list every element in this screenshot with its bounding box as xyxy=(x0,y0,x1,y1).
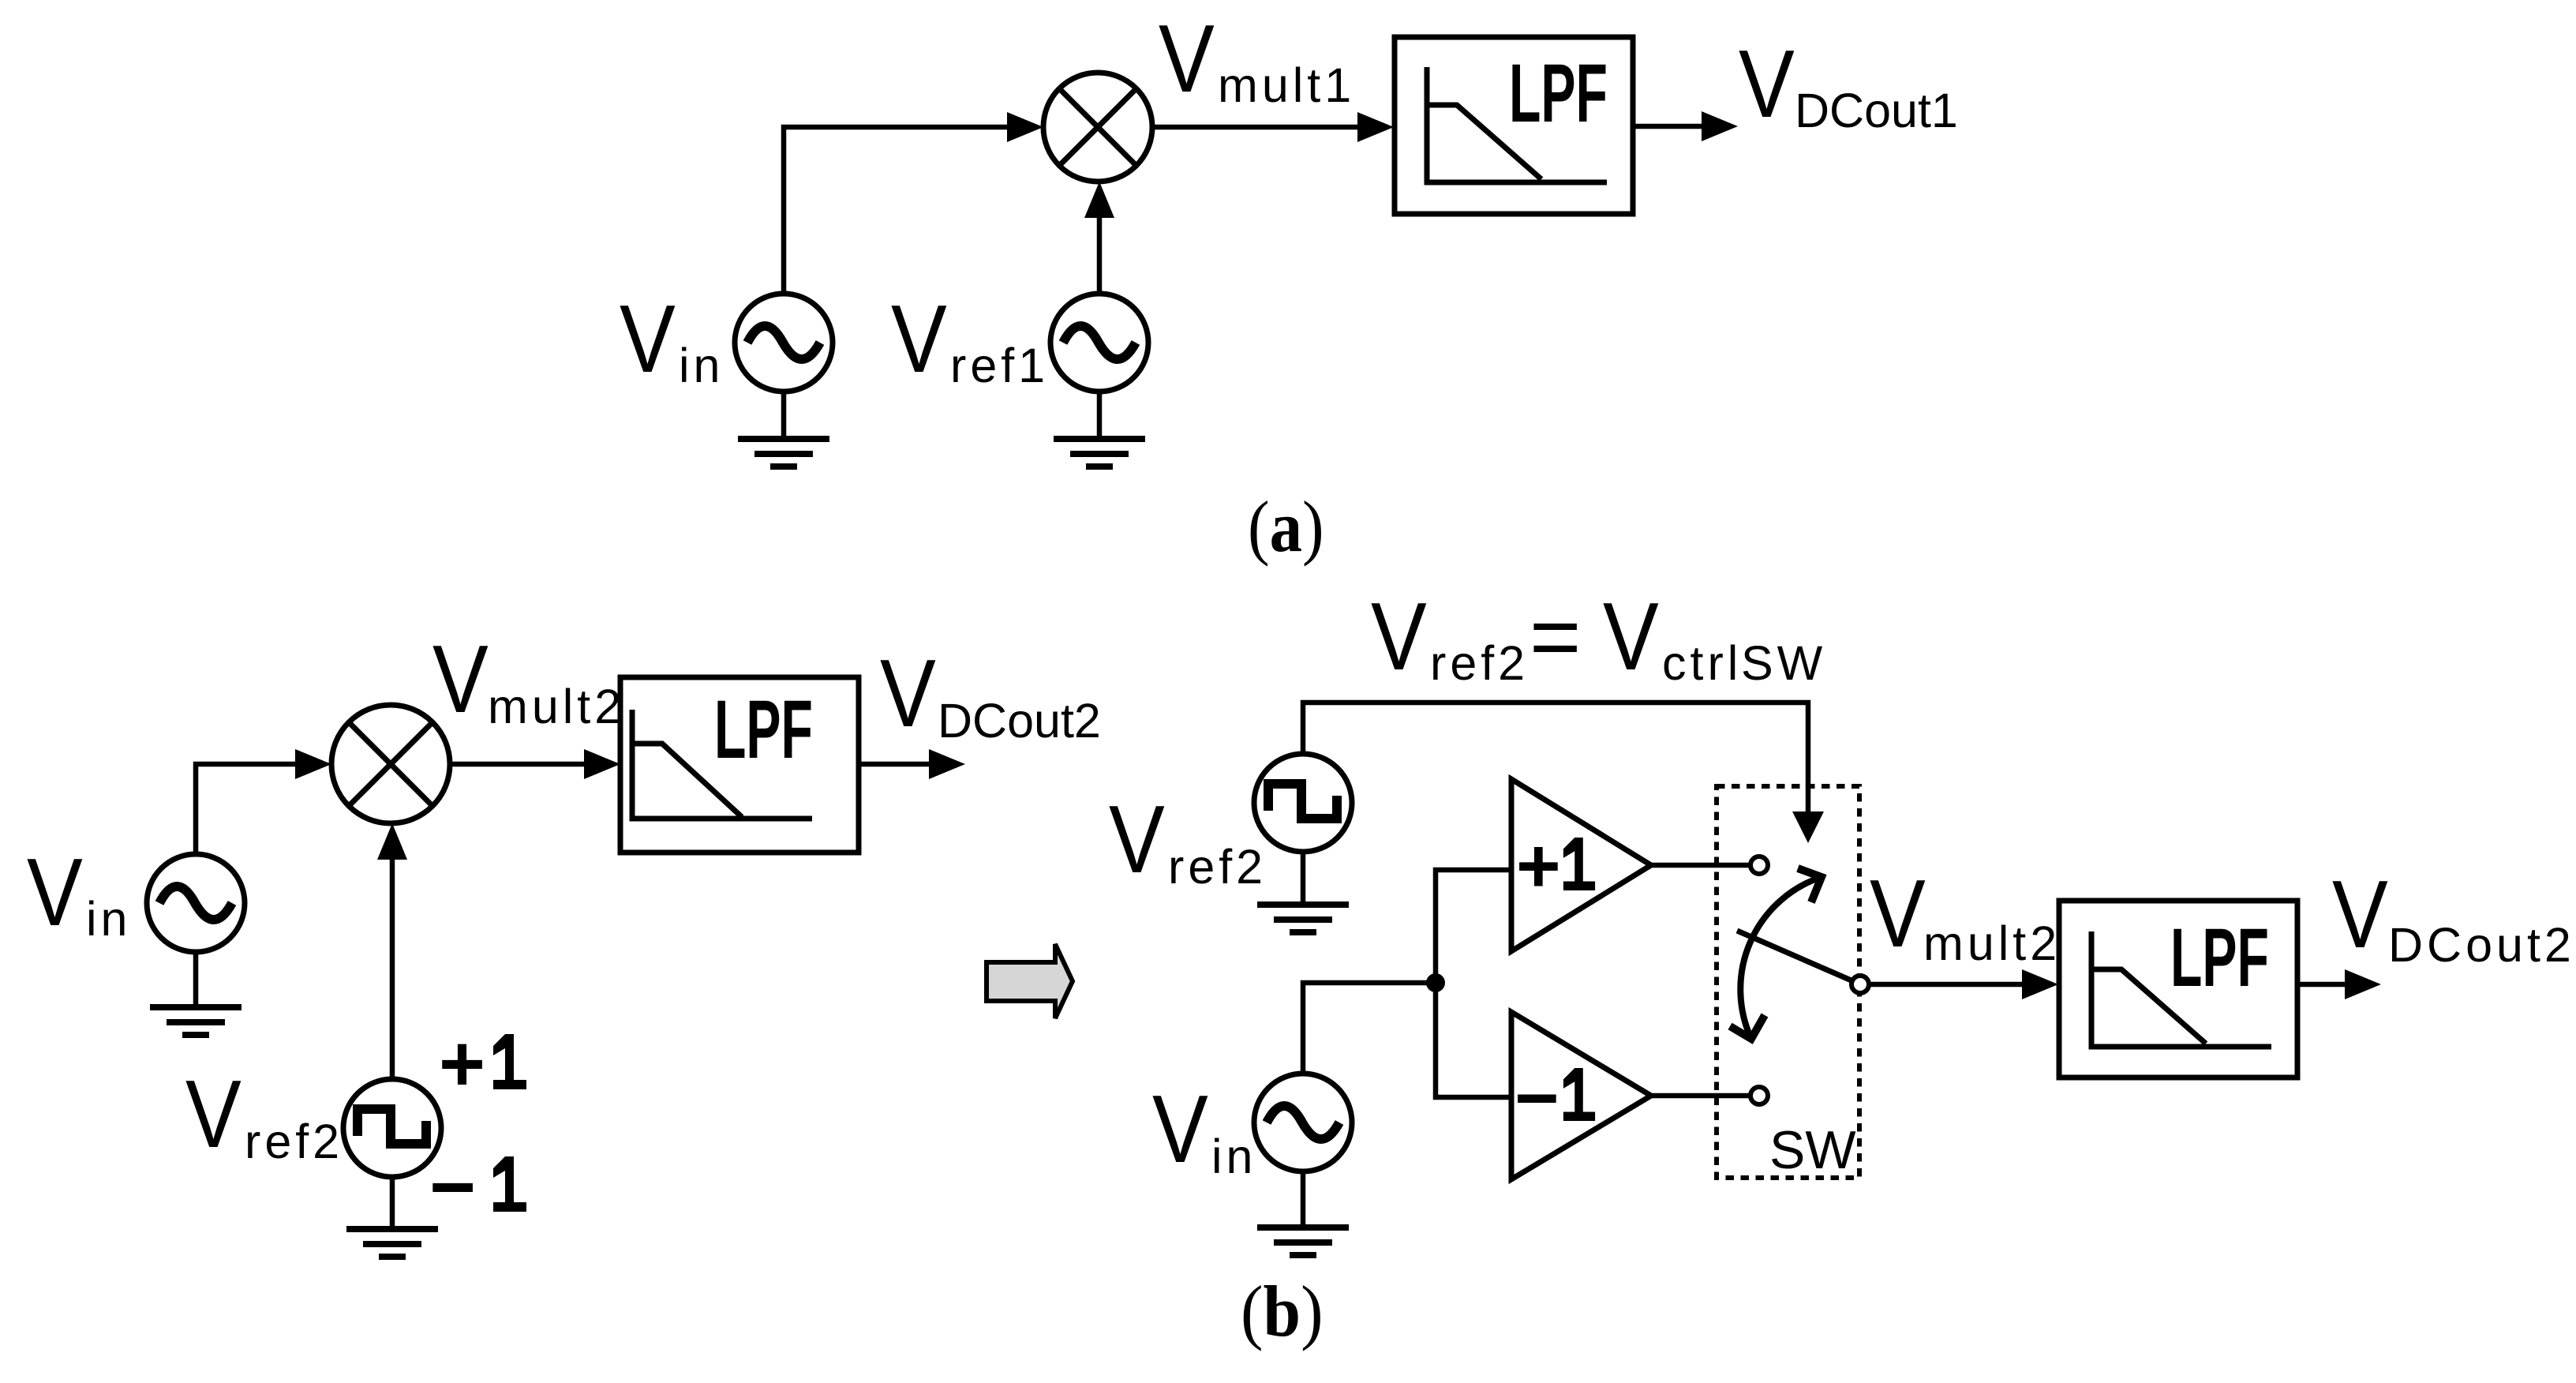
svg-text:ctrl: ctrl xyxy=(1662,636,1742,690)
svg-text:mult1: mult1 xyxy=(1218,58,1355,112)
caption (b) xyxy=(1241,1272,1324,1351)
label Vref2 (b-left) xyxy=(185,1060,343,1168)
implication arrow xyxy=(987,944,1073,1018)
wire buffer +1 to terminal xyxy=(1651,863,1749,868)
wire LPF1 to output xyxy=(1633,111,1738,141)
wire + ground under Vref1 xyxy=(1054,392,1145,467)
label Vref2 (b-right) xyxy=(1109,785,1267,894)
label Vin (a) xyxy=(620,285,724,393)
svg-text:mult2: mult2 xyxy=(1923,916,2061,970)
svg-text:+: + xyxy=(439,1020,485,1108)
svg-text:V: V xyxy=(1371,583,1427,691)
wire Vin to mixer (a) xyxy=(784,112,1043,294)
terminal bottom xyxy=(1750,1087,1768,1104)
svg-text:ref1: ref1 xyxy=(950,339,1049,392)
svg-text:(a): (a) xyxy=(1248,486,1324,567)
svg-text:in: in xyxy=(1211,1130,1256,1183)
svg-text:−: − xyxy=(429,1143,476,1231)
svg-text:(b): (b) xyxy=(1241,1272,1324,1351)
source Vref2 (b-left) xyxy=(343,1079,441,1177)
svg-text:V: V xyxy=(1159,5,1215,113)
mixer M2 xyxy=(331,705,450,823)
svg-text:LPF: LPF xyxy=(1509,47,1608,139)
svg-text:V: V xyxy=(27,838,83,946)
wire node to buffer -1 xyxy=(1436,983,1511,1097)
label Vmult1 xyxy=(1159,5,1355,113)
svg-text:V: V xyxy=(1870,860,1926,968)
svg-text:DCout1: DCout1 xyxy=(1795,84,1958,137)
LPF block LPF1 xyxy=(1395,37,1633,214)
wire + ground under Vin (a) xyxy=(738,392,829,467)
label Vref2 = VctrlSW xyxy=(1371,583,1826,691)
svg-text:V: V xyxy=(880,639,936,748)
switch lever xyxy=(1737,931,1853,981)
label VDCout2 (b-left) xyxy=(880,639,1101,748)
source Vref2 (b-right) xyxy=(1254,754,1352,852)
svg-text:V: V xyxy=(1152,1075,1208,1183)
wire LPF3 to output xyxy=(2297,969,2381,999)
svg-text:V: V xyxy=(891,285,947,393)
wire + ground under Vref2 (b-left) xyxy=(346,1177,438,1257)
wire buffer -1 to terminal xyxy=(1651,1093,1749,1099)
svg-text:V: V xyxy=(2332,860,2388,969)
wire Vin to mixer (b-left) xyxy=(196,749,331,854)
label Vref1 xyxy=(891,285,1049,393)
wire Vref2 to switch control xyxy=(1303,703,1824,843)
svg-text:SW: SW xyxy=(1769,1120,1856,1180)
svg-text:LPF: LPF xyxy=(2170,911,2269,1003)
svg-text:=: = xyxy=(1529,587,1581,686)
label Vin (b-left) xyxy=(27,838,131,946)
mixer M1 xyxy=(1043,73,1152,182)
wire Vref2 to mixer M2 xyxy=(377,823,407,1079)
wire mixer M1 to LPF1 xyxy=(1152,112,1394,142)
LPF block LPF3 xyxy=(2059,901,2297,1078)
buffer -1 xyxy=(1511,1012,1651,1179)
terminal top xyxy=(1750,856,1768,874)
svg-text:LPF: LPF xyxy=(714,683,813,775)
svg-text:mult2: mult2 xyxy=(488,680,625,733)
wire + ground under Vin (b-left) xyxy=(150,952,241,1035)
svg-text:SW: SW xyxy=(1741,636,1826,690)
wire Vin to node xyxy=(1303,983,1436,1074)
wire common terminal to LPF3 xyxy=(1869,969,2058,999)
buffer +1 xyxy=(1511,779,1651,951)
svg-text:V: V xyxy=(1109,785,1165,894)
source Vin (b-right) xyxy=(1254,1074,1352,1171)
wire mixer M2 to LPF2 xyxy=(450,749,620,779)
svg-text:V: V xyxy=(432,625,489,733)
label Vmult2 (b-left) xyxy=(432,625,625,733)
svg-text:DCout2: DCout2 xyxy=(2388,918,2575,972)
wire + ground under Vin (b-right) xyxy=(1257,1171,1349,1255)
source Vin (b-left) xyxy=(147,854,245,952)
svg-text:ref2: ref2 xyxy=(245,1115,343,1168)
svg-text:in: in xyxy=(86,892,131,946)
label -1 (b-left) xyxy=(429,1143,526,1231)
switch motion arc xyxy=(1730,868,1822,1039)
common terminal xyxy=(1851,976,1869,993)
caption (a) xyxy=(1248,486,1324,567)
svg-text:+: + xyxy=(1516,823,1561,909)
LPF block LPF2 xyxy=(620,677,859,853)
switch box SW xyxy=(1717,786,1859,1178)
label Vin (b-right) xyxy=(1152,1075,1256,1183)
label +1 (b-left) xyxy=(439,1020,526,1108)
label VDCout1 xyxy=(1739,30,1958,138)
wire + ground under Vref2 (b-right) xyxy=(1257,852,1349,932)
svg-text:ref2: ref2 xyxy=(1430,636,1529,690)
wire LPF2 to output xyxy=(859,749,965,779)
svg-text:V: V xyxy=(185,1060,241,1168)
node junction xyxy=(1426,973,1445,992)
source Vin (a) xyxy=(735,294,833,392)
svg-text:V: V xyxy=(1603,583,1659,691)
source Vref1 xyxy=(1050,294,1148,392)
wire Vref1 to mixer (a) xyxy=(1084,182,1114,294)
wire node to buffer +1 xyxy=(1436,870,1511,983)
svg-text:−: − xyxy=(1515,1055,1559,1141)
svg-text:ref2: ref2 xyxy=(1168,840,1267,894)
svg-text:DCout2: DCout2 xyxy=(938,694,1101,748)
svg-text:V: V xyxy=(620,285,676,393)
svg-text:in: in xyxy=(679,339,724,392)
label VDCout2 (b-right) xyxy=(2332,860,2575,972)
svg-text:V: V xyxy=(1739,30,1795,138)
label Vmult2 (b-right) xyxy=(1870,860,2061,970)
